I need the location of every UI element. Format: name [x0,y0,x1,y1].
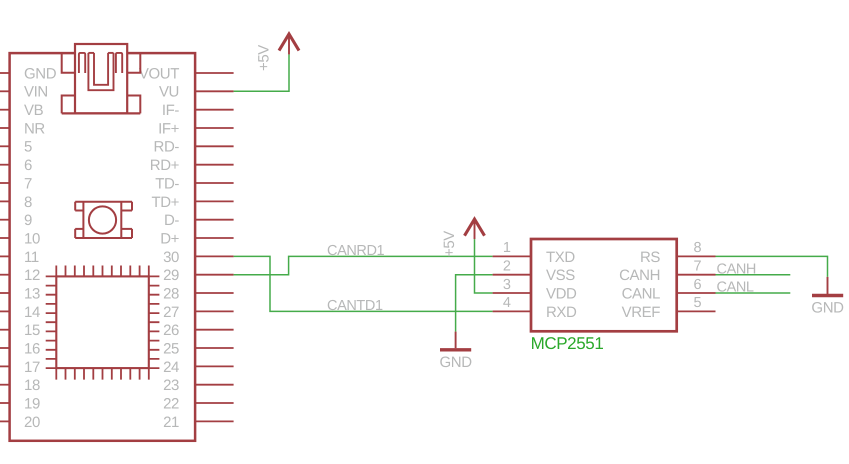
wire CANL [716,292,791,294]
svg-text:28: 28 [163,285,179,302]
svg-text:VDD: VDD [546,285,577,302]
pin TD- (board right, row 7) [155,175,233,192]
pin 14 (board left, row 14) [0,304,40,321]
pin 20 (board left, row 20) [0,414,40,431]
pin 21 (board right, row 20) [163,414,233,431]
pin 18 (board left, row 18) [0,377,40,394]
svg-text:4: 4 [503,295,511,311]
svg-text:20: 20 [24,414,40,431]
wire CANH [716,274,791,276]
svg-text:CANH: CANH [717,261,757,277]
pin 6 CANL (MCP right) [622,277,716,303]
svg-text:+5V: +5V [441,231,458,257]
+5V supply symbol (left) [255,34,299,71]
svg-text:+5V: +5V [255,45,272,71]
pin 11 (board left, row 11) [0,249,39,266]
pin D+ (board right, row 10) [160,230,233,247]
svg-text:26: 26 [163,322,179,339]
pin 7 (board left, row 7) [0,175,32,192]
svg-text:RD+: RD+ [150,157,180,174]
pin IF- (board right, row 3) [162,102,234,119]
svg-text:GND: GND [24,65,57,82]
IC MCP2551 outline [531,239,677,331]
pin 26 (board right, row 15) [163,322,233,339]
svg-text:6: 6 [694,277,702,293]
svg-text:27: 27 [163,304,179,321]
svg-text:IF+: IF+ [158,120,180,137]
pin D- (board right, row 9) [164,212,234,229]
svg-text:1: 1 [503,240,511,256]
svg-text:D-: D- [164,212,179,229]
pin RD- (board right, row 5) [154,139,234,156]
+5V supply symbol (right) [441,219,485,257]
svg-text:25: 25 [163,340,179,357]
svg-text:VU: VU [159,84,179,101]
pin 8 RS (MCP right) [640,240,716,266]
svg-text:GND: GND [440,354,473,371]
USB mini-B connector symbol [62,44,141,113]
svg-text:23: 23 [163,377,179,394]
svg-text:5: 5 [694,295,702,311]
svg-text:30: 30 [163,249,179,266]
svg-text:7: 7 [694,259,702,275]
svg-text:D+: D+ [160,230,179,247]
pin 8 (board left, row 8) [0,194,32,211]
svg-text:VOUT: VOUT [139,65,179,82]
pin 9 (board left, row 9) [0,212,32,229]
svg-text:13: 13 [24,285,40,302]
svg-text:22: 22 [163,395,179,412]
pin RD+ (board right, row 6) [150,157,234,174]
wire CANTD1 (pin 30 to MCP RXD) [234,256,493,311]
svg-text:CANL: CANL [622,285,660,302]
svg-text:VIN: VIN [24,84,48,101]
wire CANRD1 (pin 29 to MCP TXD) [234,256,493,274]
svg-text:CANL: CANL [717,280,754,296]
pin 5 (board left, row 5) [0,139,32,156]
svg-text:TXD: TXD [546,249,575,266]
pin 27 (board right, row 14) [163,304,233,321]
pin 16 (board left, row 16) [0,340,40,357]
svg-text:5: 5 [24,139,32,156]
pin 2 VSS (MCP left) [493,259,576,285]
pin 19 (board left, row 19) [0,395,40,412]
crystal Y1 symbol [75,202,132,238]
svg-text:8: 8 [24,194,32,211]
svg-text:24: 24 [163,359,179,376]
svg-text:18: 18 [24,377,40,394]
pin 4 RXD (MCP left) [493,295,577,321]
svg-text:MCP2551: MCP2551 [531,334,604,353]
pin 22 (board right, row 19) [163,395,233,412]
svg-text:2: 2 [503,259,511,275]
svg-text:16: 16 [24,340,40,357]
pin 3 VDD (MCP left) [493,277,577,303]
svg-text:21: 21 [163,414,179,431]
svg-text:VREF: VREF [622,304,661,321]
pin 23 (board right, row 18) [163,377,233,394]
pin 7 CANH (MCP right) [619,259,715,285]
wire +5V from VU pin [234,54,289,91]
svg-text:19: 19 [24,395,40,412]
svg-text:TD-: TD- [155,175,179,192]
pin 25 (board right, row 16) [163,340,233,357]
pin 29 (board right, row 12) [163,267,233,284]
pin 13 (board left, row 13) [0,285,40,302]
svg-text:RD-: RD- [154,139,180,156]
svg-text:11: 11 [24,249,39,266]
pin GND (board left, row 1) [0,65,57,82]
svg-text:29: 29 [163,267,179,284]
ground symbol (right) [811,277,844,317]
pin 28 (board right, row 13) [163,285,233,302]
pin 15 (board left, row 15) [0,322,40,339]
pin TD+ (board right, row 8) [151,194,233,211]
svg-text:GND: GND [811,300,844,317]
MCU QFP chip drawing [46,266,160,380]
pin 1 TXD (MCP left) [493,240,576,266]
svg-text:NR: NR [24,120,45,137]
svg-text:VSS: VSS [546,267,575,284]
svg-text:TD+: TD+ [151,194,179,211]
svg-text:VB: VB [24,102,44,119]
wire VSS to ground [456,275,493,332]
svg-text:17: 17 [24,359,40,376]
svg-text:14: 14 [24,304,40,321]
svg-text:7: 7 [24,175,32,192]
pin 6 (board left, row 6) [0,157,32,174]
pin 12 (board left, row 12) [0,267,40,284]
pin 17 (board left, row 17) [0,359,40,376]
pin VIN (board left, row 2) [0,84,48,101]
pin 5 VREF (MCP right) [622,295,716,321]
svg-text:3: 3 [503,277,511,293]
wire +5V to MCP VDD [475,239,493,293]
pin NR (board left, row 4) [0,120,45,137]
pin VB (board left, row 3) [0,102,44,119]
svg-text:RS: RS [640,249,660,266]
pin VU (board right, row 2) [159,84,234,101]
pin 10 (board left, row 10) [0,230,40,247]
svg-text:CANRD1: CANRD1 [327,243,385,259]
svg-text:IF-: IF- [162,102,180,119]
svg-text:CANH: CANH [619,267,660,284]
pin 24 (board right, row 17) [163,359,233,376]
pin VOUT (board right, row 1) [139,65,234,82]
ground symbol (left of MCP) [440,332,473,371]
svg-text:12: 12 [24,267,40,284]
svg-text:6: 6 [24,157,32,174]
wire RS to ground [716,256,828,277]
connector U$1 Teensy board outline [10,53,196,441]
svg-text:15: 15 [24,322,40,339]
pin IF+ (board right, row 4) [158,120,233,137]
svg-text:9: 9 [24,212,32,229]
pin 30 (board right, row 11) [163,249,233,266]
svg-text:RXD: RXD [546,304,577,321]
svg-text:8: 8 [694,240,702,256]
svg-text:10: 10 [24,230,40,247]
svg-text:CANTD1: CANTD1 [327,298,383,314]
